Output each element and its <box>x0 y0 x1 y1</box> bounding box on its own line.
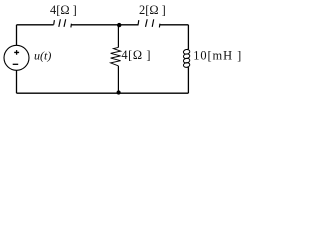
svg-text:2[Ω ]: 2[Ω ] <box>139 3 166 17</box>
svg-text:u(t): u(t) <box>34 48 51 62</box>
svg-text:4[Ω ]: 4[Ω ] <box>50 3 77 17</box>
svg-text:10[mH ]: 10[mH ] <box>193 48 242 62</box>
svg-text:4[Ω ]: 4[Ω ] <box>121 48 151 62</box>
